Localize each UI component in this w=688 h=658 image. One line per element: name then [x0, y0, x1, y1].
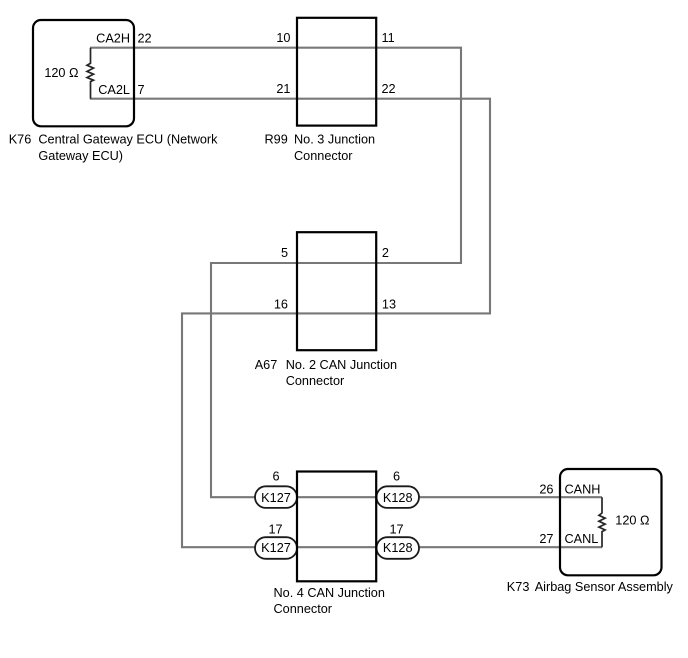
svg-text:17: 17 — [268, 522, 282, 536]
svg-text:Connector: Connector — [286, 374, 345, 388]
svg-text:Connector: Connector — [294, 149, 353, 163]
svg-text:CA2L: CA2L — [98, 83, 130, 97]
svg-text:13: 13 — [382, 298, 396, 312]
svg-text:5: 5 — [281, 246, 288, 260]
svg-text:11: 11 — [382, 31, 395, 45]
svg-text:K128: K128 — [383, 541, 413, 555]
svg-text:K76: K76 — [9, 133, 32, 147]
svg-text:No. 2 CAN Junction: No. 2 CAN Junction — [286, 358, 397, 372]
svg-text:No. 4 CAN Junction: No. 4 CAN Junction — [274, 586, 385, 600]
svg-text:Airbag Sensor Assembly: Airbag Sensor Assembly — [535, 580, 674, 594]
svg-text:27: 27 — [539, 532, 553, 546]
svg-text:CANL: CANL — [565, 532, 599, 546]
svg-text:K73: K73 — [507, 580, 530, 594]
svg-text:Gateway ECU): Gateway ECU) — [38, 149, 123, 163]
svg-text:No. 3 Junction: No. 3 Junction — [294, 133, 375, 147]
svg-text:6: 6 — [272, 470, 279, 484]
svg-text:6: 6 — [393, 470, 400, 484]
svg-text:2: 2 — [382, 246, 389, 260]
svg-text:10: 10 — [276, 31, 290, 45]
svg-text:22: 22 — [382, 82, 396, 96]
svg-text:CANH: CANH — [565, 482, 601, 496]
svg-text:Central Gateway ECU (Network: Central Gateway ECU (Network — [38, 133, 218, 147]
svg-text:120 Ω: 120 Ω — [44, 66, 78, 80]
svg-text:K127: K127 — [261, 491, 291, 505]
svg-text:120 Ω: 120 Ω — [615, 514, 649, 528]
svg-text:K127: K127 — [261, 541, 291, 555]
svg-text:7: 7 — [138, 83, 145, 97]
svg-text:21: 21 — [276, 82, 290, 96]
svg-text:CA2H: CA2H — [96, 31, 130, 45]
svg-text:A67: A67 — [255, 358, 278, 372]
svg-text:17: 17 — [389, 522, 403, 536]
svg-text:R99: R99 — [265, 133, 288, 147]
svg-text:K128: K128 — [383, 491, 413, 505]
svg-text:22: 22 — [138, 31, 152, 45]
svg-text:Connector: Connector — [274, 602, 333, 616]
svg-text:26: 26 — [539, 482, 553, 496]
svg-text:16: 16 — [274, 298, 288, 312]
